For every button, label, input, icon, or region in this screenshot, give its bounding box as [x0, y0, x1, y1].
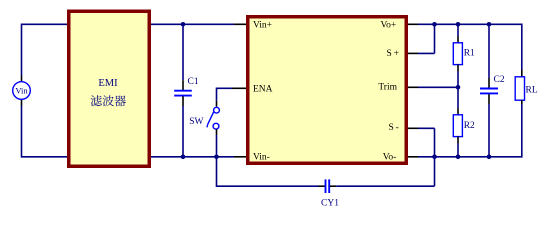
svg-text:Vin+: Vin+ [253, 21, 272, 31]
svg-text:R1: R1 [464, 49, 475, 59]
svg-text:Vo+: Vo+ [381, 21, 397, 31]
svg-text:S -: S - [388, 123, 398, 133]
svg-text:C1: C1 [188, 77, 199, 87]
svg-text:ENA: ENA [253, 84, 273, 94]
svg-text:CY1: CY1 [321, 199, 339, 209]
svg-text:R2: R2 [464, 121, 475, 131]
svg-text:RL: RL [526, 85, 538, 95]
svg-text:Vin-: Vin- [253, 152, 270, 162]
svg-text:Vo-: Vo- [383, 153, 397, 163]
svg-text:S +: S + [386, 49, 399, 59]
svg-text:SW: SW [189, 117, 203, 127]
svg-text:EMI: EMI [98, 78, 118, 89]
svg-text:C2: C2 [494, 75, 505, 85]
svg-text:Vin: Vin [15, 86, 28, 96]
svg-text:Trim: Trim [378, 82, 397, 92]
